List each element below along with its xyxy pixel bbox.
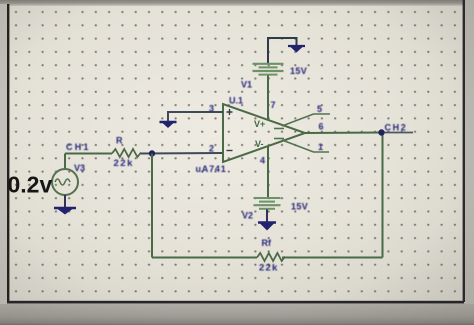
offset dash upper xyxy=(274,128,284,130)
wire: feedback bottom left xyxy=(152,257,257,259)
page border right xyxy=(463,0,465,302)
wire: output pin 6 to CH2 xyxy=(305,132,383,135)
pin 1 diagonal and stub xyxy=(282,140,329,152)
resistor R zigzag xyxy=(112,149,141,157)
left outside strip xyxy=(0,4,7,304)
ground symbol under V2 xyxy=(258,221,276,223)
wire: feedback bottom right xyxy=(282,257,383,259)
minus mark pin2 xyxy=(227,150,233,152)
wire: feedback right vertical up to CH2 xyxy=(382,133,384,258)
battery V2 plates xyxy=(254,197,281,199)
wire: V3 top to CH1 corner xyxy=(64,154,66,170)
wire: R to op-amp pin 2 xyxy=(141,152,223,155)
page border bottom xyxy=(7,301,464,304)
pin 5 diagonal and stub xyxy=(282,114,330,126)
wire: CH1 horizontal to resistor R xyxy=(65,153,112,155)
wire: V1 bottom to op-amp pin 7 xyxy=(267,76,269,121)
ground symbol under V3 xyxy=(54,207,76,209)
top dark strip xyxy=(0,0,474,6)
wire: op-amp pin 4 down to V2 xyxy=(267,146,269,197)
wire: V2 bottom to ground xyxy=(266,210,268,223)
plus mark pin3 xyxy=(227,109,233,115)
wire: pin 3 to ground xyxy=(168,112,223,121)
ground symbol top xyxy=(288,45,305,47)
node CH2 dot xyxy=(378,129,384,135)
wire: V1 top to ground corner xyxy=(268,38,297,63)
node junction dot xyxy=(149,150,155,156)
sine wave inside V3 xyxy=(55,179,70,185)
ground symbol at pin 3 xyxy=(160,121,177,123)
resistor Rf zigzag xyxy=(257,253,285,261)
battery V1 plates xyxy=(253,63,284,65)
page border left xyxy=(7,4,9,303)
bottom gray band of photo xyxy=(0,303,474,325)
wire: feedback left vertical xyxy=(151,154,153,258)
wire: V3 bottom to ground xyxy=(64,195,66,208)
wire: CH2 stub right xyxy=(383,132,414,134)
right outside strip xyxy=(465,0,474,304)
op-amp U1 triangle xyxy=(223,104,305,162)
offset dash lower xyxy=(274,138,284,140)
AC source V3 circle xyxy=(52,169,78,195)
